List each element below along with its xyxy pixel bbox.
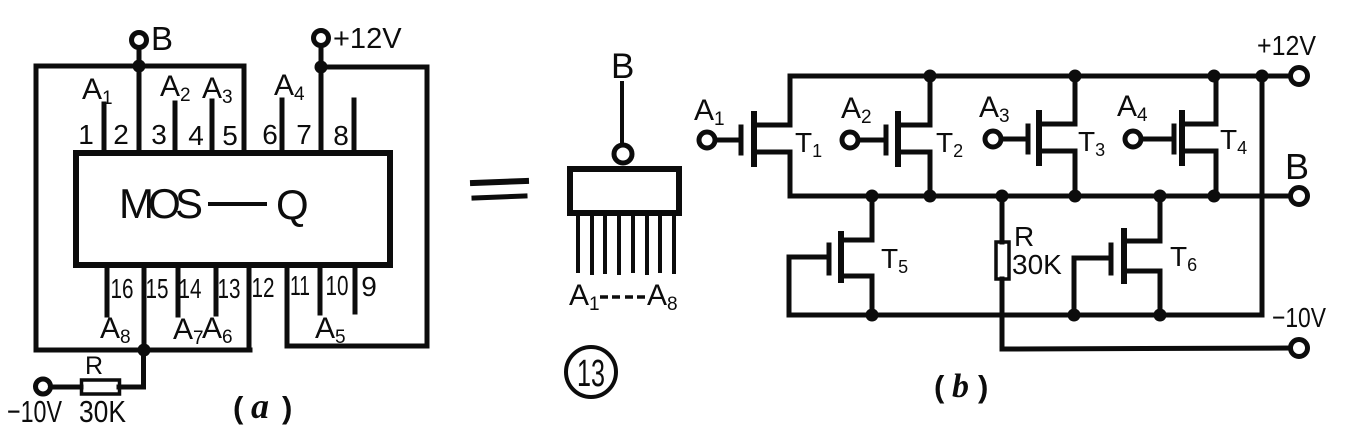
svg-text:9: 9: [361, 271, 377, 302]
pin stub 11/10 (bottom): [318, 268, 323, 313]
wire from junction down to resistor: [119, 350, 144, 387]
label dash between MOS and Q: [210, 202, 265, 206]
svg-text:MOS: MOS: [119, 180, 203, 227]
svg-text:T3: T3: [1078, 126, 1105, 160]
svg-text:A3: A3: [202, 72, 233, 108]
svg-text:7: 7: [296, 119, 312, 150]
svg-text:8: 8: [333, 120, 349, 151]
equals sign bar top: [473, 181, 526, 183]
node +12V junction dot: [315, 61, 328, 74]
wire R top lead: [1000, 196, 1005, 242]
svg-text:16: 16: [111, 273, 134, 304]
svg-text:2: 2: [113, 119, 129, 150]
transistor T1: [741, 76, 790, 196]
svg-text:T1: T1: [795, 127, 822, 161]
wire bottom horizontal left (y=350): [36, 348, 250, 353]
svg-text:13: 13: [218, 273, 241, 304]
svg-text:T6: T6: [1170, 241, 1197, 275]
pin stub 14/13 (bottom): [214, 268, 219, 314]
wire right vertical from +12V rail to lower rail: [1260, 76, 1265, 315]
pin 2 (middle symbol): [590, 215, 594, 273]
pin stub 10/9 (bottom): [353, 268, 358, 312]
svg-text:30K: 30K: [1012, 249, 1062, 280]
input terminal A1 (part b): [699, 132, 715, 148]
node dot top rail T2 drain: [924, 70, 937, 83]
node dot top rail right corner: [1256, 70, 1269, 83]
svg-text:B: B: [151, 20, 173, 57]
pin stub A3 (top, between 4 and 5): [210, 101, 215, 150]
wire T5 gate to lower rail: [789, 257, 829, 315]
svg-text:T4: T4: [1220, 124, 1247, 158]
wire B output rail: [790, 194, 1290, 199]
pin 4 (middle symbol): [617, 215, 621, 273]
node dot B rail R top: [996, 190, 1009, 203]
package body box (middle symbol): [570, 169, 679, 213]
wire T6 gate to lower rail: [1074, 258, 1111, 315]
wire B lead (middle symbol): [620, 83, 624, 145]
IC U1 MOS-Q box: [76, 153, 390, 265]
svg-text:6: 6: [262, 119, 278, 150]
svg-text:A4: A4: [274, 69, 305, 105]
node dot lower rail T6 gate: [1068, 309, 1081, 322]
svg-text:A8: A8: [647, 279, 678, 315]
wire vertical x=249 (A7A6 box right): [247, 268, 252, 349]
svg-text:B: B: [1285, 146, 1309, 187]
input terminal A4 (part b): [1125, 131, 1141, 147]
svg-text:A2: A2: [160, 70, 191, 106]
label dashes A1..A8: [600, 295, 645, 299]
svg-text:1: 1: [78, 119, 94, 150]
svg-text:30K: 30K: [79, 394, 126, 429]
wire A2 gate lead: [858, 138, 886, 143]
node dot lower rail T6 source: [1154, 309, 1167, 322]
wire from +12V junction to right: [321, 65, 427, 70]
svg-text:−10V: −10V: [7, 394, 62, 429]
svg-text:15: 15: [146, 273, 169, 304]
svg-text:13: 13: [577, 353, 605, 395]
transistor T2: [886, 76, 930, 196]
wire bottom junction vertical x=144: [142, 268, 147, 350]
pin 8 (middle symbol): [672, 215, 676, 272]
pin stub 8 (top): [352, 100, 357, 150]
pin 3 (middle symbol): [603, 215, 607, 272]
resistor R body (part b): [996, 242, 1009, 279]
pin 6 (middle symbol): [645, 215, 649, 273]
svg-text:A1: A1: [82, 73, 113, 109]
svg-text:A4: A4: [1117, 90, 1148, 126]
wire resistor to -10V terminal: [51, 385, 81, 390]
node dot top rail T4 drain: [1208, 70, 1221, 83]
input terminal A3 (part b): [985, 131, 1001, 147]
resistor R body (part a): [82, 380, 120, 394]
svg-text:14: 14: [179, 273, 202, 304]
wire vertical x=244 to IC top: [242, 66, 247, 152]
terminal +12V (part b): [1291, 68, 1308, 85]
terminal circle (middle symbol): [614, 145, 632, 163]
node dot top rail T3 drain: [1069, 70, 1082, 83]
wire bottom horizontal right (y=346): [287, 344, 427, 349]
svg-text:+12V: +12V: [1257, 30, 1316, 61]
svg-text:A7: A7: [173, 313, 204, 349]
svg-text:T2: T2: [936, 127, 963, 161]
wire +12V top rail: [790, 74, 1290, 79]
svg-text:3: 3: [151, 119, 167, 150]
svg-text:A2: A2: [841, 92, 872, 128]
wire B vertical to IC: [137, 48, 142, 152]
terminal B (part b): [1291, 188, 1308, 205]
pin 1 (middle symbol): [576, 215, 580, 271]
svg-text:(a): (a): [233, 386, 292, 426]
pin 5 (middle symbol): [631, 215, 635, 271]
svg-text:A5: A5: [315, 312, 346, 348]
transistor T5: [829, 196, 872, 315]
svg-text:B: B: [611, 47, 634, 86]
svg-text:R: R: [1014, 221, 1034, 252]
svg-text:10: 10: [326, 270, 349, 301]
node dot B rail T2 source: [924, 190, 937, 203]
terminal -10V (part b): [1291, 340, 1308, 357]
callout circle 13: [566, 347, 616, 397]
pin stub 15/14 (bottom): [176, 268, 181, 315]
svg-text:−10V: −10V: [1272, 302, 1326, 333]
svg-text:(b): (b): [934, 368, 988, 405]
svg-text:A1: A1: [569, 279, 600, 315]
svg-text:12: 12: [252, 272, 275, 303]
node B junction dot: [133, 60, 146, 73]
wire top horizontal from B: [36, 64, 244, 69]
svg-text:4: 4: [188, 120, 204, 151]
input terminal A2 (part b): [842, 132, 858, 148]
svg-text:Q: Q: [276, 181, 309, 228]
wire vertical x=287 (A5 box left): [285, 268, 290, 346]
transistor T3: [1028, 76, 1075, 196]
pin stub A2 (top, between 3 and 4): [173, 103, 178, 150]
terminal -10V (part a): [36, 379, 51, 394]
wire left outer vertical: [34, 66, 39, 350]
node dot B rail T6 drain: [1154, 190, 1167, 203]
transistor T6: [1111, 196, 1160, 315]
pin stub A4 (top, between 6 and 7): [280, 100, 285, 150]
pin 7 (middle symbol): [658, 215, 662, 271]
pin stub A1 (top, between 1 and 2): [102, 104, 107, 150]
wire -10V bottom line to terminal: [1002, 348, 1290, 349]
svg-text:A6: A6: [202, 312, 233, 348]
wire right outer vertical: [425, 67, 430, 346]
wire lower rail (T5/T6 sources): [789, 313, 1262, 318]
wire A1 gate lead: [715, 138, 741, 143]
svg-text:+12V: +12V: [333, 23, 402, 55]
equals sign bar bottom: [474, 196, 525, 198]
node dot B rail T5 drain: [866, 190, 879, 203]
terminal B (part a): [132, 33, 147, 48]
svg-text:A1: A1: [694, 94, 725, 130]
svg-text:5: 5: [222, 120, 238, 151]
node dot lower rail T5 source: [866, 309, 879, 322]
wire +12V vertical to IC: [319, 46, 324, 152]
terminal +12V (part a): [314, 31, 329, 46]
wire A4 gate lead: [1141, 137, 1174, 142]
svg-text:11: 11: [290, 270, 310, 301]
pin stub 16 (bottom): [105, 268, 110, 315]
wire R bottom lead to -10V line: [1000, 279, 1005, 349]
svg-text:A8: A8: [100, 312, 131, 348]
node dot B rail T4 source: [1208, 190, 1221, 203]
svg-text:R: R: [85, 352, 103, 380]
svg-text:T5: T5: [881, 243, 908, 277]
node dot B rail T3 source: [1069, 190, 1082, 203]
node bottom junction dot: [138, 344, 151, 357]
transistor T4: [1174, 76, 1216, 196]
svg-text:A3: A3: [979, 91, 1010, 127]
wire A3 gate lead: [1001, 137, 1028, 142]
